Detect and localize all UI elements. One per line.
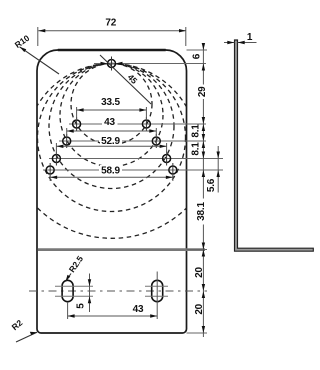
svg-text:1: 1 xyxy=(247,32,253,43)
row line pair2 xyxy=(59,140,99,142)
svg-text:43: 43 xyxy=(104,117,115,128)
dashed circle C1 xyxy=(71,64,152,145)
side view L profile xyxy=(235,40,314,251)
dim 43 xyxy=(67,128,157,137)
hole p2 left xyxy=(63,137,71,145)
hole vertical ticks xyxy=(50,57,173,178)
dim 52.9 xyxy=(56,143,166,154)
dim 58.9 xyxy=(50,174,173,181)
svg-text:8.1: 8.1 xyxy=(191,124,202,138)
leader R2 xyxy=(16,332,37,342)
slot right xyxy=(152,280,163,301)
dim 5 slot xyxy=(89,274,91,313)
leader R10 xyxy=(20,47,60,74)
svg-text:33.5: 33.5 xyxy=(101,97,120,108)
5.6 dim line xyxy=(217,146,219,193)
dashed circle C3 xyxy=(49,64,174,189)
dim 72 xyxy=(38,27,186,46)
svg-text:5: 5 xyxy=(76,303,87,309)
dashed circle C2 xyxy=(60,64,163,167)
hole p4 left xyxy=(46,166,54,174)
hole p1 left xyxy=(73,120,81,128)
slot centerline xyxy=(29,290,207,292)
hole p3 right xyxy=(163,155,171,163)
dim 1 thickness xyxy=(224,42,257,44)
hole top xyxy=(46,60,177,175)
svg-text:20: 20 xyxy=(194,267,205,278)
hole p2 right xyxy=(152,137,160,145)
svg-text:20: 20 xyxy=(194,303,205,314)
svg-text:29: 29 xyxy=(197,86,208,97)
text masks xyxy=(100,117,122,176)
dashed circle C4 xyxy=(38,64,186,212)
svg-text:52.9: 52.9 xyxy=(101,136,120,147)
dim 43 slots xyxy=(68,272,158,320)
chain arrowheads xyxy=(202,43,220,333)
svg-text:8.1: 8.1 xyxy=(191,142,202,156)
slot ext lines xyxy=(55,286,168,296)
top edge thick xyxy=(58,49,166,52)
svg-text:6: 6 xyxy=(192,53,203,59)
svg-text:72: 72 xyxy=(105,18,116,29)
row line pair3 xyxy=(49,158,223,160)
plate outline xyxy=(37,50,187,333)
slot left xyxy=(62,280,73,301)
top hole flanking arrows xyxy=(101,62,123,65)
bend line xyxy=(38,248,205,251)
dim 33.5 xyxy=(77,107,147,120)
dashed arc A5 xyxy=(38,208,187,238)
row line pair4 xyxy=(43,169,99,171)
right chain line xyxy=(202,44,204,337)
svg-text:5.6: 5.6 xyxy=(206,178,217,192)
hole p1 right xyxy=(142,120,150,128)
svg-text:58.9: 58.9 xyxy=(101,166,120,177)
chain text masks xyxy=(198,85,207,225)
row line pair1 xyxy=(69,123,102,125)
leader 45 top hole xyxy=(100,55,151,104)
svg-text:43: 43 xyxy=(133,304,144,315)
hole p3 left xyxy=(52,155,60,163)
leader R2.5 xyxy=(66,274,72,282)
right chain ext lines xyxy=(187,50,208,333)
row line top hole xyxy=(94,63,206,65)
svg-text:38.1: 38.1 xyxy=(196,202,207,221)
hole p4 right xyxy=(169,166,177,174)
